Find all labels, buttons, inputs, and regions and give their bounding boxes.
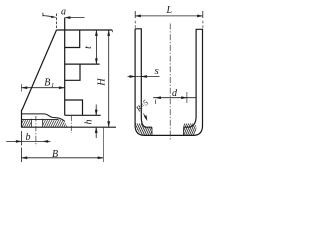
svg-text:t: t bbox=[83, 46, 94, 49]
svg-text:1: 1 bbox=[51, 82, 54, 89]
svg-text:L: L bbox=[166, 5, 173, 16]
svg-text:a: a bbox=[61, 7, 66, 18]
svg-text:h: h bbox=[84, 120, 95, 125]
svg-text:s: s bbox=[155, 65, 159, 77]
svg-text:B: B bbox=[44, 78, 50, 89]
svg-text:B: B bbox=[52, 149, 58, 160]
svg-text:b: b bbox=[26, 132, 31, 143]
svg-text:H: H bbox=[97, 78, 108, 87]
